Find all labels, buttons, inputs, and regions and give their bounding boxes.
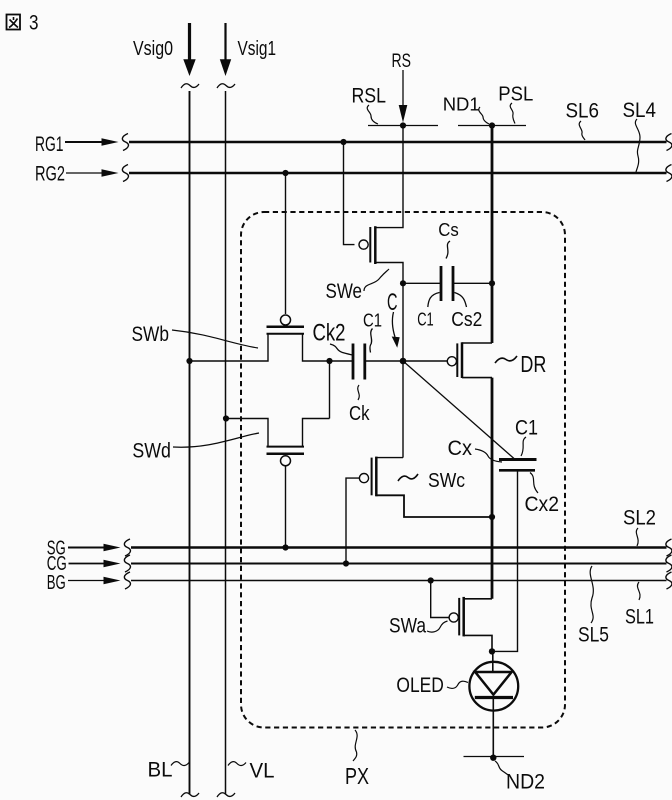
- wire SWb-SWd right vertical: [329, 361, 331, 419]
- svg-text:ND1: ND1: [443, 94, 480, 115]
- wire Cx bottom down to OLED node: [492, 470, 518, 651]
- Ck2 pointer squiggle: [330, 344, 353, 355]
- dashed box PX: [241, 212, 565, 728]
- svg-text:SWd: SWd: [132, 440, 171, 463]
- node dot ND1/PSL: [489, 122, 495, 128]
- ND2 pointer squiggle: [495, 761, 509, 776]
- node dot RG2/SWb gate: [282, 170, 288, 176]
- SWd pointer curve: [173, 433, 259, 447]
- CG break squiggle: [124, 555, 130, 572]
- SG break squiggle: [124, 539, 130, 556]
- svg-text:SWa: SWa: [389, 615, 426, 638]
- terminal ND2: [464, 756, 525, 758]
- C1(Cx) pointer squiggle: [521, 437, 526, 456]
- svg-text:VL: VL: [250, 760, 275, 783]
- svg-text:Ck2: Ck2: [313, 320, 346, 347]
- OLED diode: [469, 651, 518, 757]
- wire VL vertical: [225, 91, 227, 795]
- wire Cs to PSL: [453, 282, 492, 284]
- svg-text:C: C: [387, 289, 398, 316]
- Cs2 pointer squiggle: [455, 293, 467, 308]
- break squiggle BL bottom: [181, 793, 199, 797]
- transistor SWe: [359, 226, 403, 283]
- svg-text:RG2: RG2: [35, 163, 65, 186]
- C pointer arrow: [392, 312, 395, 337]
- ND1 pointer squiggle: [479, 107, 489, 124]
- wire SWd gate to SG: [285, 466, 287, 548]
- svg-text:PX: PX: [345, 763, 369, 789]
- wire Ck to node C and DR gate: [365, 360, 448, 362]
- svg-text:C1: C1: [417, 310, 434, 330]
- svg-text:SWb: SWb: [132, 323, 170, 346]
- node dot SWe/Cs: [400, 280, 406, 286]
- Cs pointer squiggle: [446, 241, 450, 259]
- svg-text:RSL: RSL: [352, 85, 387, 108]
- svg-text:Cx: Cx: [448, 437, 473, 460]
- svg-text:Ck: Ck: [349, 403, 370, 425]
- svg-text:C1: C1: [363, 311, 382, 331]
- svg-text:RS: RS: [392, 51, 412, 72]
- label DR with tilde: [495, 356, 517, 363]
- break squiggle VL top: [217, 84, 235, 88]
- wire BG: [131, 580, 667, 582]
- Cx2 pointer squiggle: [530, 473, 538, 494]
- SL6 pointer squiggle: [579, 121, 585, 140]
- svg-text:OLED: OLED: [396, 673, 444, 697]
- node dot OLED top: [489, 648, 495, 654]
- BG break squiggle: [124, 572, 130, 589]
- svg-text:SL6: SL6: [566, 100, 600, 123]
- Vsig0 arrow: [183, 23, 195, 76]
- node dot VL/SWd: [223, 415, 229, 421]
- svg-text:Cs2: Cs2: [451, 309, 482, 331]
- svg-text:Vsig1: Vsig1: [238, 38, 277, 60]
- node dot BG/SWa gate: [428, 577, 434, 583]
- Cx pointer squiggle: [475, 449, 502, 462]
- label SWc with tilde: [398, 474, 418, 481]
- node dot Cs/PSL: [489, 280, 495, 286]
- transistor SWa: [449, 597, 492, 652]
- wire BL vertical: [189, 91, 191, 795]
- wire RSL vertical (RS line down to SWe drain): [375, 126, 403, 228]
- wire node C vertical: [402, 283, 404, 457]
- SWa pointer squiggle: [427, 621, 448, 632]
- capacitor Cs: [441, 266, 453, 301]
- RSL pointer squiggle: [367, 105, 378, 124]
- Vsig1 arrow: [220, 23, 231, 76]
- svg-text:BG: BG: [47, 572, 66, 594]
- svg-text:SL4: SL4: [623, 99, 657, 122]
- wire PSL lower vertical: [491, 378, 494, 599]
- node dot RSL: [400, 122, 406, 128]
- RG2 right end hook: [666, 165, 672, 182]
- SL4 pointer squiggle: [635, 119, 640, 172]
- wire PSL vertical: [491, 126, 494, 344]
- break squiggle BL top: [181, 84, 199, 88]
- transistor DR: [447, 342, 492, 378]
- node dot RG1/SWe gate: [340, 139, 346, 145]
- transistor SWc: [346, 457, 492, 564]
- transistor SWd: [226, 419, 330, 466]
- transistor SWb: [190, 315, 354, 361]
- wire SG: [131, 546, 667, 548]
- SL1 pointer squiggle: [637, 582, 640, 600]
- RG2 break squiggle: [122, 165, 128, 182]
- BG right end hook: [666, 572, 672, 589]
- RG2 lead arrow: [66, 172, 103, 174]
- C1(Ck) pointer squiggle: [370, 329, 373, 353]
- svg-text:Cx2: Cx2: [525, 493, 560, 516]
- BG lead arrow: [68, 580, 105, 582]
- svg-text:Cs: Cs: [438, 220, 459, 240]
- C1(Cs) pointer squiggle: [428, 293, 440, 308]
- node dot ND2: [490, 755, 496, 761]
- wire node to Cs: [403, 282, 441, 284]
- RG1 break squiggle: [122, 134, 128, 151]
- svg-text:SL5: SL5: [578, 624, 609, 647]
- svg-text:SL1: SL1: [625, 606, 654, 629]
- wire SWb gate from RG2: [285, 173, 287, 314]
- capacitor Ck: [353, 344, 365, 380]
- svg-text:SWc: SWc: [428, 469, 465, 492]
- figure label 図 3: [7, 15, 21, 30]
- svg-text:ND2: ND2: [506, 770, 545, 794]
- node dot SG/SWd gate: [282, 544, 288, 550]
- RG1 right end hook: [666, 134, 672, 151]
- wire SWe gate from RG1: [344, 142, 355, 245]
- svg-text:RG1: RG1: [35, 133, 64, 156]
- node dot CG/SWc gate: [343, 560, 349, 566]
- svg-text:PSL: PSL: [498, 83, 533, 106]
- SL5 pointer squiggle: [590, 566, 593, 623]
- SL2 pointer squiggle: [636, 528, 638, 546]
- SG lead arrow: [68, 547, 105, 549]
- capacitor Cx: [499, 460, 537, 471]
- svg-text:DR: DR: [520, 351, 546, 377]
- PSL pointer squiggle: [510, 103, 515, 124]
- PSL terminal segment: [458, 125, 526, 127]
- svg-text:C1: C1: [515, 417, 538, 440]
- node dot SWc/PSL: [489, 514, 495, 520]
- SG right end hook: [666, 539, 672, 556]
- svg-text:SL2: SL2: [623, 507, 656, 530]
- node dot BL/SWb: [186, 358, 192, 364]
- wire RG1: [129, 141, 667, 143]
- OLED pointer squiggle: [447, 681, 468, 688]
- RSL terminal segment: [368, 125, 438, 127]
- Ck pointer squiggle: [358, 385, 360, 400]
- PX pointer squiggle: [353, 730, 357, 761]
- diagonal wire node C to Cx: [403, 361, 514, 459]
- wire CG: [131, 563, 667, 565]
- node dot C: [400, 358, 407, 365]
- svg-text:BL: BL: [148, 759, 173, 782]
- BL pointer tilde: [171, 762, 189, 766]
- RS arrow: [402, 70, 404, 107]
- SWe pointer squiggle: [364, 269, 389, 291]
- svg-text:3: 3: [29, 12, 39, 35]
- CG right end hook: [666, 555, 672, 572]
- break squiggle VL bottom: [217, 793, 235, 797]
- svg-text:Vsig0: Vsig0: [133, 38, 173, 60]
- SWb pointer curve: [172, 330, 258, 348]
- wire SWa gate from BG: [431, 581, 449, 618]
- CG lead arrow: [69, 563, 106, 565]
- VL pointer tilde: [228, 762, 246, 766]
- svg-text:SWe: SWe: [326, 280, 363, 303]
- wire RG2: [129, 172, 667, 174]
- RG1 lead arrow: [65, 141, 103, 143]
- node dot SWb-SWd right: [326, 358, 332, 364]
